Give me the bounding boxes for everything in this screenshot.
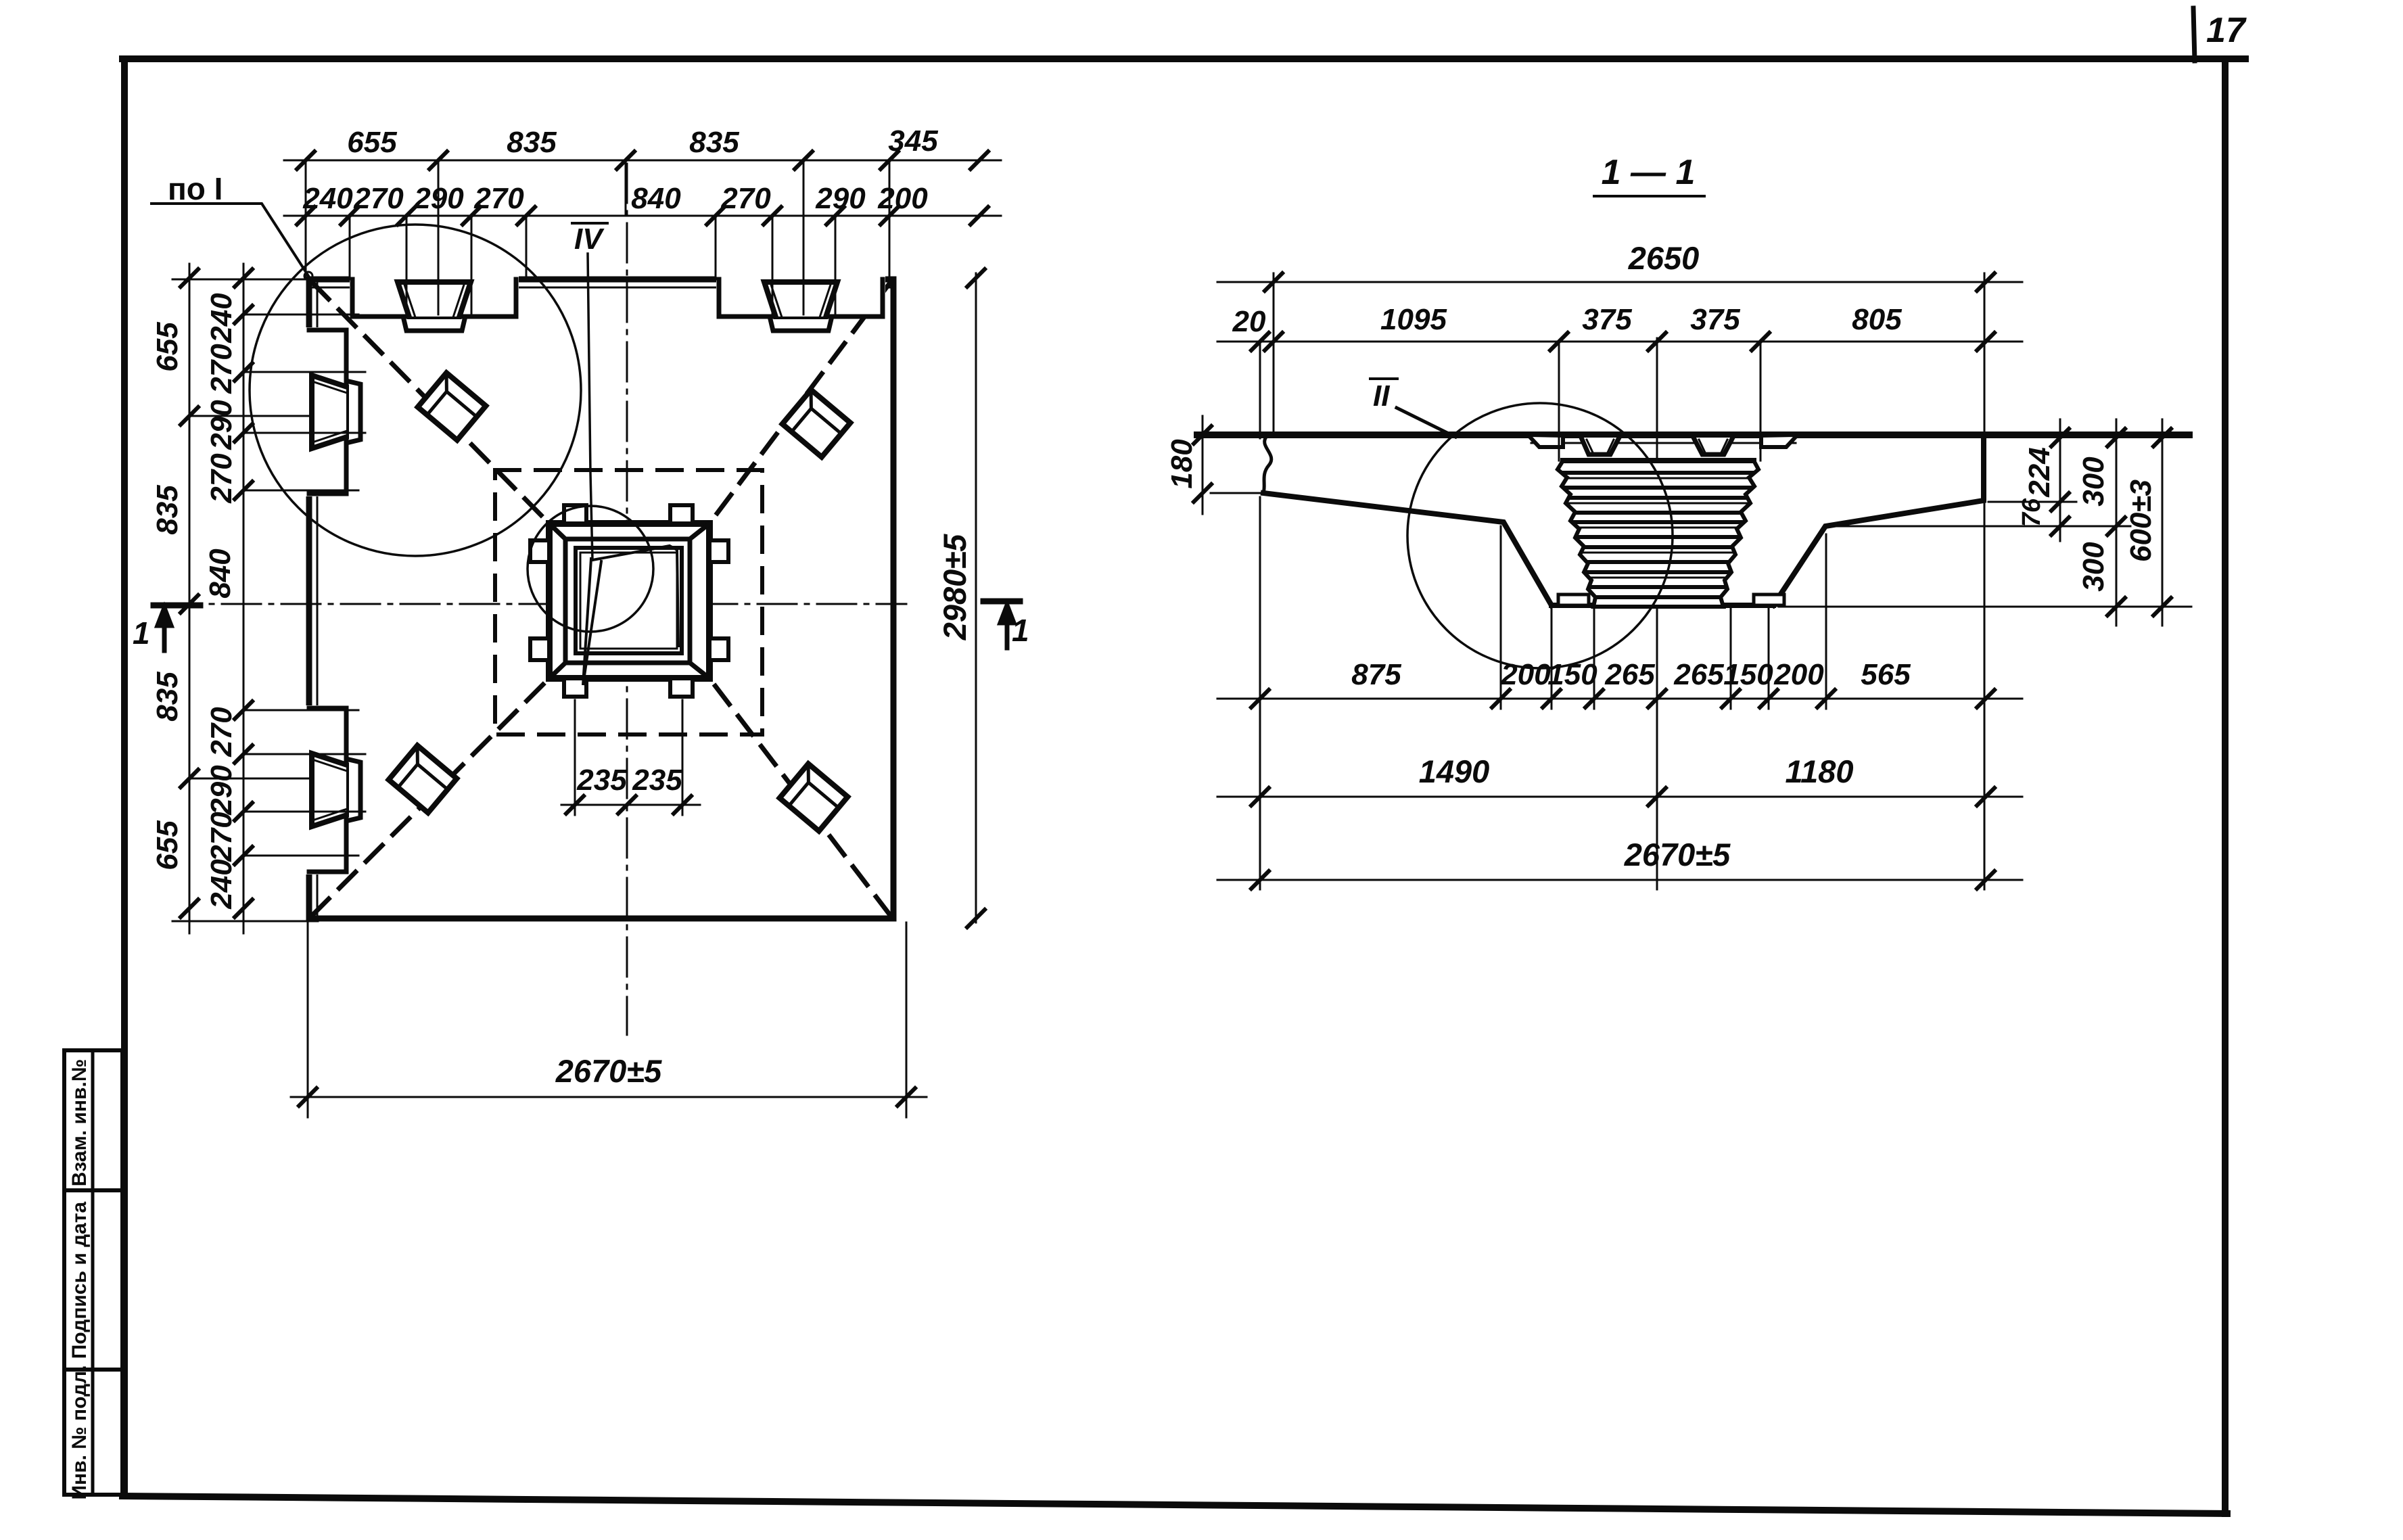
- top edge notch 1: [350, 275, 519, 331]
- capital left foot: [1558, 594, 1589, 605]
- svg-text:1: 1: [133, 615, 150, 651]
- svg-text:1: 1: [1012, 613, 1029, 648]
- svg-text:235: 235: [576, 764, 627, 797]
- page number tick 17: [2193, 8, 2195, 61]
- top edge notch 2: [716, 275, 885, 331]
- svg-text:224: 224: [2023, 447, 2056, 497]
- left chains top terminator: [172, 279, 311, 281]
- left attribute strip: [64, 1050, 122, 1495]
- column head: mid square: [565, 539, 690, 663]
- column head: outer square: [549, 523, 709, 678]
- svg-text:805: 805: [1852, 303, 1902, 336]
- svg-text:840: 840: [204, 549, 237, 599]
- svg-text:IV: IV: [574, 223, 605, 256]
- svg-text:375: 375: [1582, 303, 1632, 336]
- svg-text:300: 300: [2077, 542, 2110, 592]
- bottom chain 875/200/150/265/265/150/200/565: [1217, 698, 2022, 700]
- svg-text:200: 200: [1500, 658, 1551, 691]
- dim 300/300 line: [2116, 419, 2118, 626]
- svg-text:235: 235: [632, 764, 682, 797]
- section top extension lines: [1260, 273, 1984, 461]
- key trapezoid section far-left: [1530, 437, 1563, 447]
- svg-text:270: 270: [205, 812, 238, 862]
- svg-text:270: 270: [205, 707, 238, 757]
- bottom dim 2670±5: [307, 923, 309, 1117]
- svg-text:600±3: 600±3: [2124, 480, 2157, 562]
- plan outline: [309, 279, 893, 918]
- dashed diagonal BL: [312, 678, 549, 915]
- dim chain 20/1095/375/375/805: [1217, 341, 2022, 343]
- dim 235 235: [561, 804, 700, 806]
- svg-text:150: 150: [1547, 658, 1597, 691]
- dim 2670±5 section: [1217, 879, 2022, 881]
- svg-text:375: 375: [1690, 303, 1740, 336]
- svg-text:835: 835: [151, 485, 184, 535]
- svg-text:1095: 1095: [1380, 303, 1447, 336]
- svg-text:II: II: [1373, 379, 1390, 413]
- svg-text:270: 270: [353, 182, 404, 215]
- svg-text:Инв. № подл.: Инв. № подл.: [68, 1365, 91, 1499]
- dashed diagonal TL: [312, 283, 549, 523]
- chain1 ticks: [297, 151, 988, 169]
- chain 1490/1180: [1217, 796, 2022, 798]
- column tab bottom-left: [564, 678, 586, 697]
- bottom chain extension lines: [1260, 497, 1984, 889]
- svg-text:290: 290: [205, 400, 238, 450]
- detail circle II: [1407, 403, 1673, 668]
- svg-text:Подпись и дата: Подпись и дата: [68, 1201, 91, 1359]
- key trapezoid section right: [1694, 438, 1733, 454]
- IV leader: [588, 254, 592, 560]
- svg-text:76: 76: [2017, 498, 2046, 527]
- svg-text:265: 265: [1604, 658, 1655, 691]
- plan rim line top: [312, 287, 890, 289]
- svg-text:2650: 2650: [1628, 240, 1700, 276]
- slab underside right slope: [1773, 435, 1984, 605]
- po I underline and leader: [151, 204, 308, 276]
- column tab top-right: [670, 505, 693, 523]
- svg-text:240: 240: [205, 859, 238, 910]
- column tab right-bottom: [709, 638, 728, 660]
- dim 2650: [1217, 281, 2022, 283]
- capital bellows: [1549, 461, 1765, 607]
- capital right foot: [1754, 594, 1784, 605]
- top dim chain 1: [284, 160, 1001, 162]
- svg-text:1 — 1: 1 — 1: [1602, 153, 1696, 192]
- dim 180: [1202, 416, 1204, 514]
- svg-text:1490: 1490: [1419, 753, 1490, 789]
- svg-text:1180: 1180: [1785, 753, 1853, 789]
- column tab left-top: [530, 540, 549, 562]
- svg-text:265: 265: [1673, 658, 1724, 691]
- svg-text:200: 200: [1773, 658, 1824, 691]
- svg-text:2980±5: 2980±5: [937, 534, 973, 640]
- detail circle po I: [250, 225, 581, 556]
- dim 224/76 line: [2059, 419, 2061, 541]
- svg-text:по I: по I: [168, 171, 223, 206]
- slab left break edge: [1263, 436, 1272, 493]
- anchor plate TR: [783, 390, 851, 457]
- IV flag quad: [583, 546, 678, 685]
- dim 2980 line: [975, 273, 977, 923]
- column tab top-left: [564, 505, 586, 523]
- key trapezoid section left: [1581, 438, 1619, 454]
- chain2 ticks: [297, 207, 988, 225]
- dim 600±3 line: [2162, 419, 2164, 626]
- left outer dim chain: [189, 264, 191, 933]
- svg-text:270: 270: [205, 453, 238, 504]
- column tab right-top: [709, 540, 728, 562]
- svg-text:655: 655: [347, 126, 397, 159]
- svg-text:290: 290: [205, 765, 238, 816]
- capital bottom line: [1552, 603, 1773, 608]
- svg-text:290: 290: [815, 182, 866, 215]
- svg-text:180: 180: [1165, 439, 1198, 489]
- anchor plate BR: [780, 764, 848, 831]
- slab underside left slope: [1263, 493, 1552, 605]
- dashed diagonal BR: [709, 678, 890, 915]
- left edge notch 1: [305, 327, 360, 496]
- svg-text:2670±5: 2670±5: [1624, 837, 1731, 872]
- svg-text:835: 835: [689, 126, 739, 159]
- dashed diagonal TR: [709, 283, 890, 523]
- svg-text:17: 17: [2206, 11, 2247, 50]
- anchor plate TL: [418, 373, 486, 440]
- column tab bottom-right: [670, 678, 693, 697]
- section mark 1 right: [983, 599, 1020, 605]
- plan rim line left: [317, 283, 319, 915]
- section mark 1 left: [154, 603, 200, 609]
- plan centerline vertical: [626, 164, 628, 1035]
- svg-text:655: 655: [151, 820, 184, 870]
- svg-text:840: 840: [631, 182, 681, 215]
- chain extension verticals: [306, 160, 889, 318]
- left edge notch 2: [305, 705, 360, 874]
- svg-text:2670±5: 2670±5: [555, 1053, 662, 1089]
- svg-text:565: 565: [1861, 658, 1911, 691]
- svg-text:Взам. инв.№: Взам. инв.№: [68, 1059, 91, 1187]
- left extension stubs: [189, 314, 365, 856]
- svg-text:300: 300: [2077, 457, 2110, 507]
- svg-text:835: 835: [507, 126, 557, 159]
- column tab left-bottom: [530, 638, 549, 660]
- svg-text:240: 240: [302, 182, 353, 215]
- capital underside rim line: [1531, 442, 1796, 444]
- svg-text:270: 270: [473, 182, 524, 215]
- key trapezoid section far-right: [1761, 437, 1796, 447]
- right dims: extension lines: [1988, 501, 2076, 503]
- column head: chamfer corners: [549, 523, 709, 678]
- svg-text:200: 200: [877, 182, 928, 215]
- svg-text:655: 655: [151, 322, 184, 372]
- svg-text:345: 345: [888, 124, 938, 158]
- svg-text:20: 20: [1232, 305, 1266, 338]
- anchor plate BL: [389, 745, 457, 812]
- svg-text:875: 875: [1351, 658, 1401, 691]
- II leader: [1397, 408, 1455, 437]
- svg-text:270: 270: [720, 182, 771, 215]
- top dim chain 2: [284, 215, 1001, 217]
- slab top line: [1197, 431, 2189, 438]
- section centerline: [1656, 338, 1658, 889]
- column head: inner square: [576, 548, 682, 653]
- svg-text:270: 270: [205, 344, 238, 394]
- svg-text:835: 835: [151, 672, 184, 722]
- detail circle IV small: [528, 506, 653, 632]
- left chains bottom terminator: [172, 920, 318, 923]
- column head: innermost square: [580, 553, 677, 649]
- svg-text:240: 240: [205, 293, 238, 344]
- left inner dim chain: [243, 264, 245, 933]
- dashed cap square: [495, 470, 762, 734]
- plan centerline horizontal: [162, 603, 906, 605]
